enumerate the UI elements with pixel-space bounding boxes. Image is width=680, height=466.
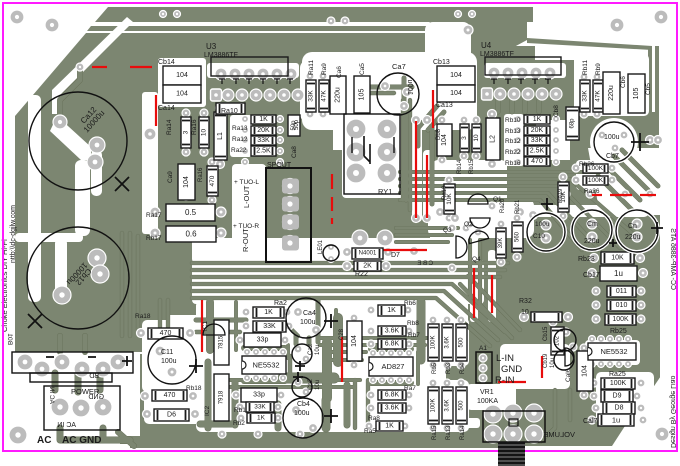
svg-text:C11: C11 [161, 349, 173, 356]
svg-text:104: 104 [450, 72, 462, 79]
svg-text:D9: D9 [613, 393, 622, 400]
svg-text:1u: 1u [612, 416, 620, 425]
svg-text:AC: AC [37, 435, 51, 446]
svg-text:2.5K: 2.5K [256, 148, 271, 155]
svg-text:1K: 1K [264, 309, 273, 316]
svg-text:Design By George Liao: Design By George Liao [669, 376, 676, 448]
svg-text:Ca5: Ca5 [359, 63, 366, 75]
svg-text:Rb8: Rb8 [407, 320, 419, 327]
svg-text:Cal6: Cal6 [565, 368, 572, 382]
svg-text:20K: 20K [531, 127, 544, 134]
svg-text:CC- AMP-3886 ATS: CC- AMP-3886 ATS [669, 228, 676, 290]
svg-text:6.8K: 6.8K [385, 341, 400, 348]
svg-text:500: 500 [459, 400, 465, 411]
svg-text:1K: 1K [387, 307, 396, 314]
svg-text:A1: A1 [479, 345, 487, 352]
svg-text:U4: U4 [481, 41, 492, 50]
svg-text:Rb7: Rb7 [408, 332, 420, 339]
svg-text:470: 470 [209, 175, 216, 186]
svg-text:Ra15: Ra15 [432, 425, 438, 440]
svg-text:NE5532: NE5532 [600, 347, 627, 356]
svg-text:VOLUME: VOLUME [543, 430, 575, 439]
svg-text:2.5K: 2.5K [530, 148, 545, 155]
svg-text:Cb13: Cb13 [433, 59, 450, 66]
svg-text:IC1: IC1 [202, 321, 209, 332]
svg-text:Rb19: Rb19 [558, 188, 564, 203]
svg-text:C B E: C B E [417, 261, 433, 267]
svg-text:Db8: Db8 [436, 128, 442, 140]
svg-text:VR1: VR1 [480, 389, 494, 396]
svg-text:L-OUT: L-OUT [242, 185, 251, 208]
svg-text:R32: R32 [519, 298, 532, 305]
svg-text:Cm: Cm [587, 221, 598, 228]
svg-text:33K: 33K [531, 137, 544, 144]
svg-text:U3: U3 [206, 42, 217, 51]
svg-text:220u: 220u [335, 87, 342, 103]
svg-text:Ra5: Ra5 [364, 428, 376, 435]
svg-text:220u: 220u [584, 238, 600, 245]
svg-text:011: 011 [616, 288, 627, 295]
svg-text:Rb2: Rb2 [233, 420, 245, 427]
svg-text:Ra17: Ra17 [146, 212, 162, 219]
svg-text:Ca4: Ca4 [303, 310, 316, 317]
svg-text:3.6K: 3.6K [445, 399, 451, 411]
svg-text:10u: 10u [550, 358, 556, 368]
svg-text:Ra10: Ra10 [221, 108, 238, 115]
svg-text:100K: 100K [588, 177, 604, 184]
svg-text:100u: 100u [535, 221, 550, 228]
svg-text:Ra25: Ra25 [609, 371, 626, 378]
svg-text:Rb17: Rb17 [146, 235, 162, 242]
svg-text:Ca14: Ca14 [158, 105, 175, 112]
svg-text:Ra8: Ra8 [368, 415, 380, 422]
svg-text:2K: 2K [363, 263, 372, 270]
svg-text:Ra16: Ra16 [191, 119, 198, 135]
svg-text:100u: 100u [161, 358, 177, 365]
svg-text:Ra9: Ra9 [321, 63, 328, 75]
svg-text:Rb26: Rb26 [579, 161, 595, 168]
svg-text:Rb3: Rb3 [446, 362, 452, 374]
svg-text:Ca7: Ca7 [392, 62, 406, 71]
svg-text:Q1: Q1 [493, 196, 502, 203]
svg-text:R-OUT: R-OUT [241, 228, 250, 252]
svg-text:BD: BD [89, 373, 99, 380]
svg-text:RY1: RY1 [378, 187, 392, 196]
svg-text:Ra14: Ra14 [460, 425, 466, 440]
svg-text:AC IN: AC IN [48, 386, 55, 404]
svg-text:10u: 10u [315, 345, 321, 355]
svg-text:LM3886TF: LM3886TF [480, 51, 514, 58]
svg-text:105: 105 [633, 88, 640, 100]
svg-text:N4001: N4001 [359, 251, 377, 257]
svg-text:10: 10 [521, 309, 529, 316]
svg-text:1K: 1K [385, 423, 394, 430]
svg-text:Cb7: Cb7 [606, 153, 619, 160]
svg-text:104: 104 [351, 335, 358, 347]
svg-text:Rb18: Rb18 [186, 385, 202, 392]
svg-text:Cb17: Cb17 [583, 272, 600, 279]
svg-text:39K: 39K [498, 238, 504, 249]
svg-text:Cb4: Cb4 [297, 401, 310, 408]
svg-text:Rb4: Rb4 [460, 362, 466, 374]
svg-text:0.6: 0.6 [185, 230, 197, 239]
svg-text:470: 470 [164, 392, 176, 399]
svg-text:Ra13: Ra13 [232, 125, 248, 132]
svg-text:Ca13: Ca13 [436, 102, 453, 109]
svg-text:20K: 20K [257, 127, 270, 134]
svg-text:Rb22: Rb22 [505, 149, 521, 156]
svg-text:Cb14: Cb14 [158, 59, 175, 66]
svg-text:1u: 1u [614, 269, 623, 278]
svg-text:104: 104 [582, 365, 589, 377]
svg-text:Rb9: Rb9 [595, 63, 602, 75]
svg-text:Ra18: Ra18 [135, 313, 151, 320]
svg-text:220u: 220u [608, 85, 615, 101]
svg-text:Ra22: Ra22 [231, 147, 247, 154]
svg-text:D6: D6 [167, 412, 176, 419]
svg-text:Rb14: Rb14 [457, 159, 463, 174]
svg-text:100K: 100K [610, 380, 627, 387]
svg-text:100u: 100u [294, 410, 310, 417]
svg-text:Ra11: Ra11 [308, 60, 315, 75]
svg-text:nttb:\\dc-dgjlw.com: nttb:\\dc-dgjlw.com [10, 205, 17, 263]
svg-text:AD827: AD827 [382, 362, 405, 371]
svg-text:100u: 100u [300, 319, 316, 326]
svg-text:104: 104 [176, 72, 188, 79]
svg-text:33K: 33K [308, 90, 315, 102]
svg-text:10: 10 [201, 129, 208, 137]
svg-text:D8: D8 [615, 405, 624, 412]
svg-text:1K: 1K [533, 116, 542, 123]
svg-text:Cn: Cn [628, 223, 637, 230]
svg-text:Q4: Q4 [472, 256, 481, 263]
svg-text:Rb23: Rb23 [578, 256, 595, 263]
svg-text:Ca6: Ca6 [336, 66, 343, 78]
svg-text:7815: 7815 [219, 335, 225, 349]
svg-text:104: 104 [176, 91, 188, 98]
svg-text:33K: 33K [582, 90, 589, 102]
svg-text:Rb12: Rb12 [505, 138, 521, 145]
svg-text:L1: L1 [217, 132, 224, 140]
svg-text:Rb10: Rb10 [505, 117, 521, 124]
svg-text:470: 470 [531, 158, 543, 165]
svg-text:Ca2: Ca2 [308, 343, 314, 355]
svg-text:Rb13: Rb13 [505, 128, 521, 135]
svg-text:Choke Electronics DIY Hi-Fi: Choke Electronics DIY Hi-Fi [0, 239, 9, 332]
svg-text:Ra26: Ra26 [584, 188, 600, 195]
svg-text:Ra12: Ra12 [232, 136, 248, 143]
svg-text:Cal7: Cal7 [583, 418, 598, 425]
svg-text:Rb1: Rb1 [234, 407, 246, 414]
svg-text:100KA: 100KA [477, 398, 498, 405]
svg-text:D7: D7 [391, 252, 400, 259]
svg-text:Rb16: Rb16 [505, 160, 521, 167]
svg-text:Rb21: Rb21 [515, 199, 521, 214]
svg-text:Ra14: Ra14 [166, 119, 173, 135]
svg-text:Ra2: Ra2 [274, 300, 287, 307]
svg-text:C10: C10 [533, 233, 545, 240]
svg-text:100u: 100u [406, 79, 413, 95]
svg-text:R-IN: R-IN [495, 375, 515, 386]
svg-text:47K: 47K [321, 90, 328, 102]
svg-text:Rb6: Rb6 [404, 300, 416, 307]
svg-text:50p: 50p [294, 119, 300, 130]
svg-text:Q3: Q3 [443, 227, 452, 234]
svg-text:AC GND: AC GND [62, 435, 101, 446]
svg-text:33K: 33K [263, 323, 276, 330]
svg-text:104: 104 [450, 90, 462, 97]
svg-text:C28: C28 [339, 328, 345, 340]
svg-text:L2: L2 [490, 135, 497, 143]
svg-text:R22: R22 [355, 271, 368, 278]
svg-text:104: 104 [441, 134, 448, 146]
svg-text:Cb19: Cb19 [543, 353, 549, 368]
svg-text:GND: GND [501, 364, 522, 375]
svg-text:SPOUT: SPOUT [267, 162, 292, 169]
svg-text:3.6K: 3.6K [445, 336, 451, 348]
svg-text:10: 10 [473, 134, 480, 142]
svg-text:33K: 33K [254, 404, 266, 411]
svg-text:Ra13: Ra13 [446, 425, 452, 440]
svg-text:Ra19: Ra19 [442, 185, 448, 200]
svg-text:Ca9: Ca9 [167, 171, 174, 183]
svg-text:IC2: IC2 [204, 406, 211, 417]
svg-text:100K: 100K [431, 335, 437, 349]
svg-text:L-IN: L-IN [496, 353, 514, 364]
svg-text:3.6K: 3.6K [385, 328, 400, 335]
svg-text:0.5: 0.5 [185, 208, 197, 217]
svg-text:560: 560 [515, 231, 521, 242]
svg-text:220u: 220u [625, 234, 641, 241]
svg-text:GND: GND [88, 394, 104, 401]
svg-text:500: 500 [459, 337, 465, 348]
svg-text:68p: 68p [570, 118, 576, 129]
svg-text:100K: 100K [431, 398, 437, 412]
svg-text:Rb25: Rb25 [610, 328, 627, 335]
svg-text:1K: 1K [257, 415, 266, 422]
svg-text:105: 105 [359, 89, 366, 101]
svg-text:104: 104 [183, 176, 190, 188]
svg-text:7918: 7918 [219, 390, 225, 404]
svg-text:47K: 47K [595, 90, 602, 102]
svg-text:Ra16: Ra16 [198, 167, 204, 182]
svg-text:Ra7: Ra7 [404, 385, 416, 392]
svg-text:NE5532: NE5532 [252, 361, 279, 370]
svg-text:Q2: Q2 [464, 221, 473, 228]
svg-text:10u: 10u [315, 380, 321, 390]
svg-text:33p: 33p [257, 337, 269, 344]
svg-text:+ TUO-L: + TUO-L [234, 179, 259, 186]
svg-text:100u: 100u [604, 134, 620, 141]
svg-text:Rb15: Rb15 [469, 159, 475, 174]
svg-text:33K: 33K [257, 137, 270, 144]
svg-text:Ca8: Ca8 [291, 146, 298, 158]
svg-text:3: 3 [183, 130, 190, 134]
svg-text:33p: 33p [253, 392, 265, 399]
svg-text:3: 3 [461, 136, 468, 140]
svg-text:Cb6: Cb6 [620, 76, 627, 88]
svg-text:6.8K: 6.8K [385, 392, 400, 399]
svg-text:1K: 1K [259, 116, 268, 123]
svg-text:100K: 100K [612, 316, 629, 323]
svg-text:010: 010 [616, 302, 628, 309]
svg-text:Rb5: Rb5 [432, 362, 438, 374]
svg-text:Rb11: Rb11 [582, 60, 589, 75]
svg-text:3.6K: 3.6K [385, 405, 400, 412]
svg-text:B01: B01 [6, 333, 13, 345]
svg-text:10K: 10K [611, 255, 624, 262]
svg-text:LE01: LE01 [318, 239, 324, 254]
svg-text:Cb8: Cb8 [553, 105, 560, 117]
svg-text:Cb5: Cb5 [645, 83, 652, 95]
svg-text:LM3886TF: LM3886TF [204, 52, 238, 59]
svg-text:AC IN: AC IN [57, 422, 76, 429]
svg-text:Cb2: Cb2 [308, 378, 314, 390]
svg-text:Cb15: Cb15 [543, 326, 549, 341]
